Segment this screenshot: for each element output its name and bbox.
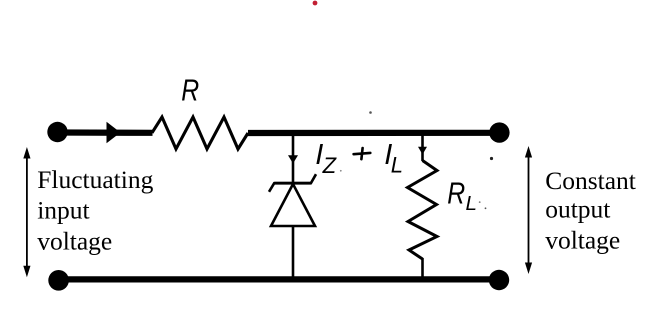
svg-text:input: input xyxy=(37,196,89,225)
wire: bottom rail xyxy=(59,276,499,282)
label I_Z + I_L (branch currents) xyxy=(315,139,403,178)
load current arrowhead xyxy=(418,147,427,155)
svg-text:L: L xyxy=(391,152,403,177)
red speck mark xyxy=(313,1,318,6)
wire: top rail, right segment (resistor to output node) xyxy=(248,130,499,136)
input voltage span arrow (double-headed) xyxy=(23,147,30,277)
svg-text:R: R xyxy=(181,73,199,107)
zener diode cathode bar with bent ends xyxy=(269,174,316,192)
plus sign in current label xyxy=(354,148,371,159)
zener current arrowhead xyxy=(288,155,298,163)
label RL (load resistor) xyxy=(447,176,465,210)
svg-text:Z: Z xyxy=(322,153,338,178)
label: Fluctuating input voltage xyxy=(37,165,153,256)
svg-text:Constant: Constant xyxy=(545,166,636,195)
wire: zener branch upper lead xyxy=(292,131,295,183)
label R (series resistor value) xyxy=(181,73,199,107)
node: top-left input terminal xyxy=(47,122,67,142)
wire: load branch upper lead xyxy=(421,131,424,161)
output voltage span arrow (double-headed) xyxy=(525,146,532,274)
faint speck mark right of Z subscript xyxy=(340,170,342,172)
svg-text:voltage: voltage xyxy=(545,225,620,254)
svg-text:voltage: voltage xyxy=(37,226,112,255)
wire: load branch lower lead xyxy=(421,258,424,278)
node: bottom-right terminal xyxy=(489,270,509,290)
gray speck mark xyxy=(369,111,372,114)
wire: zener branch lower lead xyxy=(292,226,295,278)
resistor R xyxy=(152,117,248,149)
zener diode anode triangle xyxy=(271,184,315,226)
svg-text:Fluctuating: Fluctuating xyxy=(37,165,153,194)
dark speck mark near output node xyxy=(490,157,493,160)
faint speck marks right of RL label xyxy=(479,201,487,209)
node: bottom-left terminal xyxy=(48,270,69,291)
svg-text:output: output xyxy=(545,195,610,224)
resistor RL (load) xyxy=(408,161,438,260)
svg-text:L: L xyxy=(466,192,477,215)
svg-text:R: R xyxy=(447,176,465,210)
input current direction arrow xyxy=(107,122,121,143)
wire: top rail, left segment (input to resistor) xyxy=(58,129,153,136)
label: Constant output voltage xyxy=(545,166,636,254)
node: top-right output terminal xyxy=(489,122,509,142)
